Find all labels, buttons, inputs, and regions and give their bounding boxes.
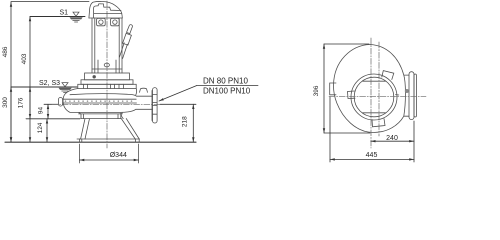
S2,S3 water symbol (59, 83, 72, 93)
dimension 403 (21, 17, 30, 143)
barrel clamp line (92, 68, 122, 70)
svg-text:S1: S1 (60, 10, 69, 17)
stand right leg (121, 113, 139, 139)
handle chords (363, 80, 386, 82)
S2,S3 level line (11, 86, 77, 88)
volute centerline horizontal (52, 103, 162, 105)
dimension 218 (160, 104, 196, 142)
svg-text:DN100 PN10: DN100 PN10 (203, 86, 251, 95)
sensor ellipse (104, 63, 109, 67)
dimension O344 (80, 144, 139, 163)
outer casing top view (333, 45, 409, 133)
dimension 176 (18, 87, 31, 119)
svg-text:176: 176 (18, 97, 25, 108)
dimension 445 (330, 97, 414, 162)
svg-text:445: 445 (366, 152, 378, 159)
leader DN (159, 77, 258, 101)
svg-text:396: 396 (313, 85, 320, 96)
svg-text:124: 124 (37, 122, 44, 133)
barrel circle (354, 77, 394, 117)
svg-text:94: 94 (38, 107, 45, 115)
dimension 240 (371, 135, 414, 142)
dimension 396 (313, 44, 370, 133)
svg-text:218: 218 (181, 116, 188, 127)
ring bottom lobe (372, 119, 385, 127)
motor barrel (92, 18, 122, 73)
left tab (330, 83, 336, 95)
base ring (77, 139, 140, 142)
casing vent boss (140, 88, 148, 92)
oil chamber band A (85, 73, 130, 80)
ring top lobe (382, 71, 394, 80)
ground line (5, 141, 196, 143)
top cap (89, 1, 122, 18)
volute top arch (70, 94, 153, 97)
casing mount band C (78, 84, 136, 88)
svg-text:240: 240 (386, 135, 398, 142)
stand left leg (81, 119, 90, 139)
svg-text:486: 486 (2, 46, 9, 57)
boss right (111, 18, 120, 25)
inner ring (351, 74, 397, 120)
dimension 300 (2, 87, 11, 142)
dimension 94 (38, 104, 59, 119)
centerline horizontal (329, 95, 426, 97)
svg-text:403: 403 (21, 53, 28, 64)
svg-text:DN 80 PN10: DN 80 PN10 (203, 77, 248, 86)
cap base line (89, 17, 122, 19)
flange top view (405, 72, 417, 120)
volute casing outline (63, 89, 152, 113)
seal housing band B (81, 80, 133, 85)
svg-text:S2, S3: S2, S3 (39, 80, 60, 87)
extension line y=118.8 (26, 118, 80, 120)
S1 water symbol (70, 12, 83, 22)
dimension 486 (2, 2, 89, 143)
S1 level line (30, 16, 85, 18)
cable gland (120, 25, 133, 59)
volute left end cap (58, 98, 62, 107)
ring left notch (348, 91, 356, 99)
volute seam lines (63, 99, 137, 103)
boss left (97, 18, 106, 25)
ring right tick (396, 94, 399, 96)
discharge flange (152, 88, 157, 123)
suction flange stack (79, 112, 123, 118)
pump centerline vertical (106, 1, 108, 148)
handle (94, 4, 121, 18)
svg-text:300: 300 (2, 97, 9, 108)
centerline vertical 1 (370, 38, 372, 148)
casing split line bolts (65, 100, 133, 102)
svg-text:Ø344: Ø344 (110, 152, 127, 159)
centerline vertical 2 (378, 42, 380, 136)
cap skirt seam (94, 12, 122, 14)
dimension 124 (37, 119, 47, 142)
